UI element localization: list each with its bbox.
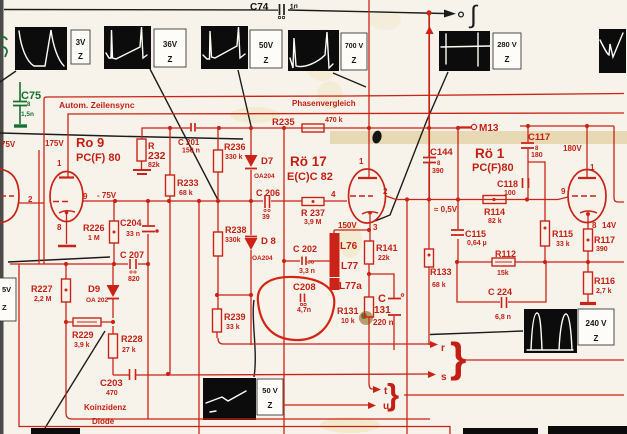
svg-text:R116: R116 bbox=[594, 276, 615, 286]
wire row y201 left bbox=[83, 200, 263, 202]
svg-text:C203: C203 bbox=[100, 378, 123, 389]
wire left column x39 bbox=[38, 150, 40, 264]
wire top black bus left segment bbox=[4, 9, 278, 12]
capacitor C202 bbox=[293, 244, 317, 275]
svg-text:C117: C117 bbox=[528, 132, 550, 143]
svg-text:10 k: 10 k bbox=[341, 318, 355, 325]
svg-text:L76: L76 bbox=[340, 241, 358, 252]
label box 50V Z bottom bbox=[257, 379, 283, 415]
svg-text:240 V: 240 V bbox=[586, 319, 608, 328]
svg-text:R131: R131 bbox=[337, 306, 359, 316]
svg-text:E(C)C 82: E(C)C 82 bbox=[287, 171, 333, 183]
svg-text:8: 8 bbox=[592, 221, 597, 230]
svg-text:180V: 180V bbox=[563, 144, 582, 153]
svg-text:C: C bbox=[378, 293, 386, 305]
wire branch x545 R115 bbox=[528, 162, 545, 262]
inductor L76 L77 bbox=[330, 230, 363, 292]
wire column x429 lower bbox=[428, 163, 430, 345]
resistor R235 bbox=[272, 117, 343, 132]
svg-text:Autom. Zeilensync: Autom. Zeilensync bbox=[59, 100, 135, 110]
svg-text:C 202: C 202 bbox=[293, 244, 317, 254]
ground R232 bbox=[133, 170, 151, 174]
svg-text:Z: Z bbox=[168, 55, 173, 64]
tube Ro9 envelope bbox=[50, 159, 83, 246]
svg-text:Rö 17: Rö 17 bbox=[290, 154, 327, 169]
wire row y302 C224 bbox=[457, 262, 500, 302]
svg-text:PC(F) 80: PC(F) 80 bbox=[76, 152, 121, 164]
wire row y322 R229 bbox=[66, 321, 113, 323]
resistor R236 bbox=[214, 142, 246, 172]
arrow small red up on drop wire bbox=[426, 26, 434, 34]
svg-text:C115: C115 bbox=[465, 229, 486, 239]
paper stain L77 area bbox=[338, 222, 362, 258]
svg-text:22k: 22k bbox=[378, 255, 390, 262]
resistor R112 bbox=[492, 249, 516, 277]
svg-text:4: 4 bbox=[331, 190, 336, 199]
svg-text:50 V: 50 V bbox=[262, 386, 277, 395]
svg-text:27 k: 27 k bbox=[122, 347, 136, 354]
scope waveform 36V bbox=[104, 26, 151, 69]
svg-text:C74: C74 bbox=[250, 2, 269, 13]
svg-text:R239: R239 bbox=[224, 312, 246, 322]
svg-text:150V: 150V bbox=[338, 221, 357, 230]
svg-text:PC(F)80: PC(F)80 bbox=[472, 162, 514, 174]
pointer line 240V scope bbox=[430, 331, 523, 335]
svg-text:M13: M13 bbox=[479, 123, 499, 134]
resistor R141 bbox=[365, 241, 398, 264]
svg-text:L77a: L77a bbox=[339, 281, 362, 292]
paper stain bottom middle bbox=[320, 417, 380, 433]
green marks top left corner bbox=[0, 37, 7, 57]
wire s row y374 bbox=[136, 374, 428, 375]
wire column x528 C117 C118 bbox=[527, 126, 529, 199]
svg-text:33 k: 33 k bbox=[556, 241, 570, 248]
wire row y419 box bottom bbox=[66, 322, 430, 419]
svg-text:D7: D7 bbox=[261, 156, 273, 167]
diode D9 bbox=[86, 284, 120, 304]
wire t stub bbox=[369, 383, 373, 389]
svg-text:1: 1 bbox=[359, 157, 364, 166]
node junction red on bus bbox=[426, 10, 431, 15]
svg-text:Z: Z bbox=[268, 401, 273, 410]
svg-text:Z: Z bbox=[594, 334, 599, 343]
svg-text:R115: R115 bbox=[552, 229, 573, 239]
wire row y395 output t u bbox=[404, 394, 624, 396]
scope waveform right edge bbox=[599, 29, 626, 73]
node dot stray C204 bbox=[155, 229, 159, 233]
svg-text:0,64 µ: 0,64 µ bbox=[467, 240, 487, 247]
resistor R226 bbox=[83, 221, 119, 243]
wire row y128 main bbox=[142, 128, 190, 139]
resistor R227 bbox=[31, 279, 71, 303]
wire column x251 bbox=[250, 128, 252, 295]
resistor R232 bbox=[137, 139, 166, 169]
wire column x407 bbox=[406, 200, 408, 434]
ink blot bbox=[371, 130, 383, 145]
wire row y264 left bbox=[10, 263, 128, 265]
svg-text:68 k: 68 k bbox=[432, 282, 446, 289]
svg-text:3,9 k: 3,9 k bbox=[74, 342, 90, 349]
svg-text:2: 2 bbox=[383, 187, 388, 196]
scope partial bottom left bbox=[31, 428, 80, 434]
svg-text:C 207: C 207 bbox=[120, 250, 144, 260]
svg-text:OA204: OA204 bbox=[254, 173, 275, 180]
svg-text:C118: C118 bbox=[497, 179, 518, 189]
arrow r bbox=[430, 341, 438, 348]
tube Ro17 envelope bbox=[331, 157, 388, 232]
wire column x369 cathode R141 R131 bbox=[369, 215, 370, 383]
label box 240V Z bbox=[578, 309, 614, 345]
wire row y128 continue bbox=[196, 127, 472, 129]
svg-text:L77: L77 bbox=[341, 261, 359, 272]
capacitor C207 bbox=[120, 250, 144, 283]
arrow on top bus bbox=[444, 10, 456, 18]
resistor R239 bbox=[213, 309, 246, 332]
wire column x218 bbox=[217, 126, 218, 338]
svg-text:68 k: 68 k bbox=[179, 190, 193, 197]
pointer line scope3 bbox=[238, 70, 251, 126]
wire row y230 150V node bbox=[334, 229, 369, 231]
wire row y262 right continue bbox=[515, 261, 624, 263]
svg-text:R238: R238 bbox=[225, 225, 247, 235]
svg-text:D 8: D 8 bbox=[261, 236, 276, 247]
resistor R133 bbox=[425, 249, 452, 289]
svg-text:8: 8 bbox=[57, 223, 62, 232]
scope partial bottom middle bbox=[463, 428, 538, 434]
brown stain dot near R131 bbox=[359, 311, 373, 325]
wire column x284 bbox=[283, 128, 285, 434]
pointer line scope1 bbox=[0, 71, 16, 82]
wire left column x19 bbox=[18, 264, 20, 427]
wire row y302 right up bbox=[508, 262, 546, 302]
svg-text:r: r bbox=[441, 343, 445, 354]
svg-text:1,5n: 1,5n bbox=[21, 111, 34, 118]
wire column x429 C144 R133 bbox=[428, 13, 430, 157]
wire top black bus right segment bbox=[288, 10, 444, 14]
wire row y262 right side bbox=[457, 261, 492, 263]
arrow s bbox=[428, 371, 436, 378]
paper stain mid left bbox=[230, 107, 280, 123]
resistor R115 bbox=[541, 221, 574, 248]
svg-text:6,8 n: 6,8 n bbox=[495, 314, 511, 321]
paper stain near C74 bbox=[369, 10, 401, 30]
scope waveform 280V bbox=[439, 31, 490, 71]
label box 3V Z bbox=[71, 30, 90, 64]
wire column x170 R233 bbox=[169, 128, 171, 374]
svg-text:2: 2 bbox=[28, 195, 33, 204]
svg-text:50V: 50V bbox=[259, 41, 274, 50]
svg-text:3,3 n: 3,3 n bbox=[299, 268, 315, 275]
wire row y360 output r bbox=[464, 359, 624, 361]
svg-text:Phasenvergleich: Phasenvergleich bbox=[292, 99, 356, 108]
svg-text:- 75V: - 75V bbox=[97, 191, 117, 200]
wire row y264 right bbox=[138, 263, 150, 265]
wire row y261 to coil bbox=[309, 260, 330, 262]
capacitor C203 bbox=[100, 369, 136, 397]
capacitor C117 bbox=[521, 132, 550, 159]
capacitor C201 bbox=[178, 123, 200, 155]
wire u row y405 bbox=[283, 404, 368, 406]
wire column x614 right rail bbox=[614, 126, 624, 202]
svg-text:R228: R228 bbox=[121, 334, 143, 344]
scope waveform 3V bbox=[15, 27, 67, 70]
brown stain dot inner bbox=[361, 313, 367, 319]
svg-text:Koinzidenz: Koinzidenz bbox=[84, 403, 126, 412]
svg-text:R233: R233 bbox=[177, 178, 199, 188]
black rule y136 bbox=[0, 133, 243, 139]
capacitor C206 bbox=[256, 188, 280, 221]
svg-text:Diode: Diode bbox=[92, 417, 115, 426]
pointer line scope2 bbox=[150, 69, 218, 200]
wire column x369 anode rail bbox=[368, 0, 370, 171]
resistor R237 bbox=[301, 198, 325, 227]
svg-text:3V: 3V bbox=[76, 38, 86, 47]
wire C203 left lead bbox=[113, 374, 129, 376]
pointer line scope4 bbox=[333, 73, 366, 87]
svg-text:R114: R114 bbox=[484, 207, 505, 217]
capacitor C118 bbox=[497, 178, 529, 197]
svg-text:39: 39 bbox=[262, 214, 270, 221]
diode D7 bbox=[245, 155, 275, 180]
svg-text:s: s bbox=[441, 372, 447, 383]
wire rail y113 bbox=[68, 113, 624, 178]
svg-text:390: 390 bbox=[596, 246, 608, 253]
svg-text:Z: Z bbox=[78, 52, 83, 61]
svg-text:82 k: 82 k bbox=[488, 218, 502, 225]
wire column x148 C204 bbox=[147, 201, 149, 419]
resistor R131 bbox=[337, 297, 374, 325]
svg-text:R226: R226 bbox=[83, 223, 105, 233]
wire r row y345 bbox=[218, 338, 430, 344]
wire R232 bottom lead bbox=[141, 161, 143, 169]
wire row y126 right segment bbox=[520, 125, 614, 127]
svg-text:33 k: 33 k bbox=[226, 324, 240, 331]
svg-text:232: 232 bbox=[148, 150, 166, 162]
ground R116 bbox=[580, 302, 596, 305]
svg-text:1: 1 bbox=[590, 163, 595, 172]
svg-text:175V: 175V bbox=[45, 139, 64, 148]
svg-text:5V: 5V bbox=[2, 285, 11, 294]
wire row y201 right to tube grid bbox=[324, 200, 347, 202]
svg-text:1 M: 1 M bbox=[88, 235, 100, 242]
svg-text:R236: R236 bbox=[224, 142, 246, 152]
svg-text:330 k: 330 k bbox=[225, 154, 243, 161]
svg-text:4,7n: 4,7n bbox=[297, 307, 311, 314]
paper stain top middle2 bbox=[317, 81, 343, 109]
arrow t bbox=[373, 386, 381, 393]
svg-text:180: 180 bbox=[531, 152, 543, 159]
svg-text:R133: R133 bbox=[430, 267, 452, 277]
svg-text:Z: Z bbox=[505, 55, 510, 64]
pointer line scope5 280V bbox=[375, 72, 448, 221]
resistor R229 bbox=[72, 318, 101, 349]
svg-text:C 224: C 224 bbox=[488, 287, 512, 297]
svg-text:OA 202: OA 202 bbox=[86, 297, 109, 304]
terminal M13 bbox=[458, 123, 499, 134]
svg-text:C144: C144 bbox=[430, 147, 453, 158]
page edge dark bar left bbox=[0, 0, 4, 434]
resistor R116 bbox=[584, 272, 616, 295]
svg-text:R112: R112 bbox=[495, 249, 516, 259]
resistor R238 bbox=[214, 225, 247, 256]
capacitor C224 bbox=[488, 287, 512, 321]
capacitor C115 bbox=[451, 229, 487, 247]
label box 700V Z bbox=[341, 33, 367, 70]
scope partial bottom right bbox=[548, 426, 627, 434]
svg-text:Rö 1: Rö 1 bbox=[475, 146, 505, 161]
wire column x113 D9 R228 bbox=[112, 264, 114, 375]
svg-text:390: 390 bbox=[432, 168, 444, 175]
svg-text:R227: R227 bbox=[31, 284, 53, 294]
capacitor C144 bbox=[423, 147, 453, 175]
svg-text:R 237: R 237 bbox=[301, 208, 325, 218]
svg-text:}: } bbox=[450, 334, 466, 381]
resistor R117 bbox=[584, 229, 616, 253]
label box 36V Z bbox=[154, 29, 186, 67]
svg-text:33 n: 33 n bbox=[126, 231, 140, 238]
svg-text:1: 1 bbox=[57, 159, 62, 168]
svg-text:C 206: C 206 bbox=[256, 188, 280, 198]
svg-text:131: 131 bbox=[374, 305, 391, 316]
wire column x114 R226 bbox=[113, 201, 115, 264]
svg-text:100: 100 bbox=[504, 190, 516, 197]
annotation circle blob bbox=[258, 277, 335, 340]
svg-text:2,7 k: 2,7 k bbox=[596, 288, 612, 295]
svg-text:R141: R141 bbox=[376, 243, 398, 253]
svg-text:75V: 75V bbox=[1, 140, 16, 149]
wire column x251 lower bbox=[250, 295, 252, 345]
svg-text:9: 9 bbox=[83, 192, 88, 201]
svg-text:36V: 36V bbox=[163, 40, 178, 49]
svg-text:Z: Z bbox=[2, 303, 7, 312]
svg-text:82k: 82k bbox=[148, 162, 160, 169]
svg-text:}: } bbox=[387, 377, 399, 412]
svg-text:Z: Z bbox=[352, 56, 357, 65]
tube partial left edge bbox=[0, 169, 44, 223]
wire row y295 bbox=[217, 294, 251, 296]
svg-text:C75: C75 bbox=[21, 90, 41, 102]
svg-text:Z: Z bbox=[264, 56, 269, 65]
paper stain band right bbox=[330, 131, 627, 144]
resistor R233 bbox=[166, 175, 199, 197]
capacitor C204 bbox=[120, 218, 155, 238]
svg-text:≈ 0,5V: ≈ 0,5V bbox=[434, 205, 458, 214]
svg-text:∫: ∫ bbox=[468, 1, 478, 29]
arrow u bbox=[368, 402, 376, 409]
capacitor C74 bbox=[250, 2, 298, 19]
label box 50V Z bbox=[250, 30, 282, 68]
tube Ro1 envelope bbox=[561, 163, 606, 230]
svg-text:C 201: C 201 bbox=[178, 138, 200, 147]
wire row y198 bbox=[386, 196, 568, 200]
scope waveform 700V bbox=[288, 30, 339, 71]
wire column x458 M13 C115 bbox=[457, 127, 459, 262]
svg-text:C208: C208 bbox=[293, 282, 316, 293]
scope waveform 240V bbox=[524, 309, 577, 353]
diode D8 bbox=[245, 236, 276, 262]
wire red drop from bus node bbox=[429, 13, 431, 199]
pointer line bottom left box bbox=[45, 331, 105, 428]
frame Autom Zeilensync top border bbox=[44, 94, 624, 265]
svg-text:220 n: 220 n bbox=[373, 318, 394, 327]
svg-text:OA204: OA204 bbox=[252, 255, 273, 262]
wire column x199 bbox=[198, 201, 200, 434]
capacitor C131 bbox=[373, 293, 404, 327]
svg-text:3: 3 bbox=[373, 223, 378, 232]
wire row y427 bottom bbox=[19, 427, 450, 434]
wire C131 branch bbox=[369, 274, 394, 350]
svg-text:150 n: 150 n bbox=[182, 148, 200, 155]
black rule y258 bbox=[8, 257, 110, 262]
svg-text:470 k: 470 k bbox=[325, 117, 343, 124]
resistor R228 bbox=[109, 334, 143, 358]
node o terminal bbox=[459, 12, 464, 17]
svg-text:2,2 M: 2,2 M bbox=[34, 296, 52, 303]
label box 280V Z bbox=[493, 33, 521, 69]
capacitor C75 green bbox=[13, 82, 41, 126]
svg-text:C204: C204 bbox=[120, 218, 142, 228]
svg-text:R229: R229 bbox=[72, 330, 94, 340]
paper stain top middle bbox=[302, 29, 342, 81]
wire row y201 mid bbox=[271, 200, 302, 202]
svg-text:9: 9 bbox=[561, 187, 566, 196]
scope waveform 50V bbox=[201, 26, 248, 69]
label box 5V Z left edge bbox=[0, 278, 16, 321]
scope waveform 50V bottom bbox=[203, 378, 256, 420]
capacitor C208 bbox=[293, 282, 316, 314]
pointer line 50V bottom bbox=[253, 300, 255, 377]
resistor R114 bbox=[483, 196, 506, 226]
svg-text:14V: 14V bbox=[602, 221, 617, 230]
svg-text:700 V: 700 V bbox=[345, 43, 364, 50]
svg-text:15k: 15k bbox=[497, 270, 509, 277]
svg-text:Ro 9: Ro 9 bbox=[76, 135, 104, 150]
wire column x66 R227 bbox=[65, 264, 67, 322]
svg-text:R117: R117 bbox=[594, 235, 615, 245]
svg-text:D9: D9 bbox=[88, 284, 100, 295]
svg-text:280 V: 280 V bbox=[497, 40, 517, 49]
wire row y261 C202 bbox=[284, 260, 300, 262]
svg-text:330k: 330k bbox=[225, 237, 241, 244]
svg-text:3,9 M: 3,9 M bbox=[304, 219, 322, 226]
svg-text:470: 470 bbox=[106, 390, 118, 397]
svg-text:820: 820 bbox=[128, 276, 140, 283]
wire column x587 tube Ro1 bbox=[587, 126, 588, 302]
